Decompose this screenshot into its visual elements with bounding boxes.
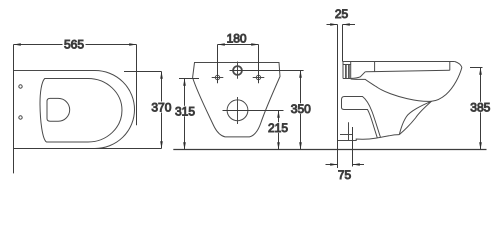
floor line under rear view and side view: [173, 149, 486, 151]
bottom edge from wall: [338, 135, 400, 141]
trapway sliver upper edge: [399, 101, 431, 134]
seat underside line: [365, 70, 450, 72]
seat bolt hole upper: [19, 85, 22, 88]
svg-text:215: 215: [268, 121, 288, 135]
315 top extension line: [179, 78, 199, 80]
bracket outer rect: [343, 62, 351, 79]
outlet circle: [227, 100, 248, 121]
flush D opening: [47, 98, 70, 121]
svg-text:385: 385: [470, 101, 490, 115]
svg-text:180: 180: [227, 31, 247, 45]
top view inner seat outline: [40, 79, 122, 143]
outlet crosshair vertical: [237, 97, 239, 124]
dim 370 line: [161, 72, 163, 149]
left fixing hole circle: [215, 75, 219, 79]
dim 180 right extension: [258, 45, 260, 84]
dim 75 line left arrow: [326, 164, 338, 166]
dim 315 text: [173, 106, 197, 117]
water inlet circle: [233, 66, 242, 75]
inlet crosshair vertical: [237, 62, 239, 79]
dim 350 text: [289, 103, 313, 114]
25 right extension / back face upper: [342, 25, 344, 62]
top view outer bowl outline: [14, 71, 135, 149]
top view bottom edge / 370 extension: [14, 148, 162, 150]
left fixing hole cross horizontal: [212, 77, 224, 79]
dim 75 line right arrow: [353, 164, 365, 166]
svg-text:75: 75: [338, 168, 352, 182]
rim end cap tick: [449, 62, 451, 71]
seat split tick: [374, 62, 376, 72]
svg-text:350: 350: [291, 102, 311, 116]
dim 565 right extension: [136, 45, 138, 126]
dim 370 top extension: [124, 71, 162, 73]
dim 180 left extension: [217, 45, 219, 84]
dim 215 text: [267, 122, 291, 133]
bracket inner lines: [346, 65, 349, 79]
dim 215 line: [278, 111, 280, 150]
dim 385 text: [469, 102, 493, 113]
75 right extension: [352, 127, 354, 167]
dim 370 text: [150, 102, 174, 113]
dim 25 line left arrow: [327, 24, 338, 26]
foot top line: [340, 134, 353, 136]
seat bolt hole lower: [19, 116, 22, 119]
right fixing hole cross horizontal: [253, 77, 265, 79]
inlet crosshair horizontal / 350 extension: [230, 70, 304, 72]
outlet pipe band top: [342, 97, 381, 138]
svg-text:370: 370: [151, 101, 171, 115]
svg-text:315: 315: [175, 104, 195, 118]
dim 25 line right arrow: [343, 24, 356, 26]
outlet crosshair horizontal / 215 extension: [223, 110, 284, 112]
front face curve: [351, 67, 462, 101]
lower L vertical: [348, 122, 350, 140]
dim 350 line: [300, 71, 302, 150]
dim 180 line: [218, 44, 259, 46]
dim 315 line: [184, 79, 186, 150]
outlet pipe band bottom: [342, 108, 378, 138]
dim 385 line: [480, 68, 482, 150]
rear view body outline: [193, 63, 280, 137]
wall line: [337, 25, 339, 169]
trapway sliver lower edge: [399, 101, 431, 134]
dim 385 top extension: [470, 67, 483, 69]
dim 565 text: [63, 39, 86, 50]
svg-text:565: 565: [64, 38, 84, 52]
top view left edge / 565 extension line: [13, 45, 15, 174]
svg-text:25: 25: [335, 7, 349, 21]
rim bottom edge: [351, 72, 366, 79]
rim end slant: [455, 62, 462, 68]
back face lower / bracket area: [342, 62, 344, 79]
dim 565 line: [14, 44, 137, 46]
side top rim edge: [343, 61, 455, 63]
right fixing hole circle: [256, 75, 260, 79]
